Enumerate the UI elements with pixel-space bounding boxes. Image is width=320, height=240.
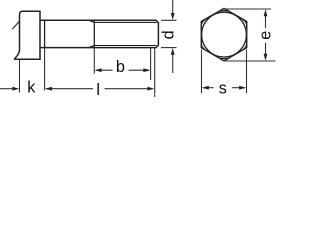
svg-text:k: k (27, 78, 36, 96)
svg-text:l: l (96, 81, 100, 99)
svg-text:d: d (160, 30, 178, 39)
svg-text:s: s (219, 79, 227, 97)
svg-text:e: e (256, 31, 274, 40)
svg-text:b: b (116, 58, 125, 76)
